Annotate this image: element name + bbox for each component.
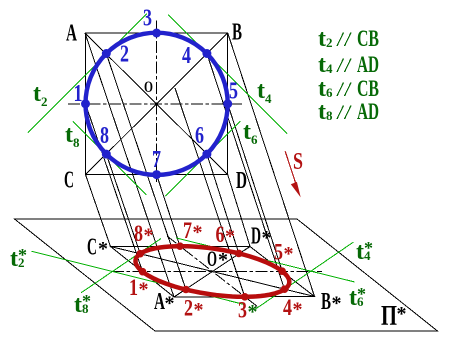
svg-text:D: D (251, 224, 261, 250)
svg-text:t: t (318, 99, 326, 125)
point 5 on circle (223, 99, 232, 108)
svg-text:2: 2 (41, 94, 48, 109)
svg-text:4: 4 (326, 61, 333, 76)
svg-text:AD: AD (357, 99, 379, 124)
svg-text:*: * (248, 301, 258, 323)
svg-text:4: 4 (283, 295, 292, 320)
diagonal B-C (86, 33, 228, 175)
svg-text:6: 6 (326, 85, 333, 100)
diagonal C*-B* (111, 247, 315, 297)
square ABCD (86, 33, 228, 175)
tangent t4* (256, 242, 354, 309)
svg-text:6: 6 (357, 294, 364, 309)
projection ray 6 to 6* (207, 154, 239, 253)
point 3* on ellipse (241, 293, 249, 301)
projection ray 8 to 8* (106, 154, 140, 254)
svg-text:CB: CB (357, 76, 379, 101)
svg-text:3: 3 (238, 298, 247, 323)
svg-text:1: 1 (129, 275, 138, 300)
svg-text:t: t (318, 52, 326, 78)
point 2* on ellipse (182, 286, 190, 294)
svg-text:t: t (318, 26, 326, 52)
svg-text:t: t (243, 119, 251, 145)
svg-text:*: * (397, 303, 407, 325)
point 4 on circle (202, 49, 211, 58)
point 1* on ellipse (139, 268, 147, 276)
plane pi-star outline (15, 219, 438, 331)
svg-text:AD: AD (357, 52, 379, 77)
svg-text:7: 7 (152, 147, 161, 173)
centerline vertical through O (156, 21, 158, 185)
svg-text:8: 8 (82, 301, 89, 316)
svg-text:A: A (66, 21, 77, 47)
svg-text:8: 8 (134, 221, 143, 246)
svg-text:t: t (257, 78, 265, 104)
point 8 on circle (102, 150, 111, 159)
svg-text:*: * (332, 293, 342, 315)
svg-text:5: 5 (229, 79, 238, 105)
centerline oblique through O* (7*-3*) (167, 236, 258, 307)
svg-text:C: C (64, 168, 74, 194)
tangent t6* (176, 238, 354, 282)
svg-text:6: 6 (195, 123, 204, 149)
svg-text:4: 4 (182, 43, 191, 69)
tangent t2 (28, 14, 147, 133)
point 2 on circle (102, 49, 111, 58)
centerline horizontal through O (68, 103, 242, 105)
svg-text:*: * (98, 238, 108, 260)
svg-text:7: 7 (183, 218, 192, 243)
svg-text:Π: Π (381, 301, 397, 332)
point 6* on ellipse (235, 250, 243, 258)
diagonal A-D (85, 33, 228, 175)
svg-text:O: O (207, 246, 217, 271)
svg-text:B: B (232, 20, 242, 46)
circle (blue) inscribed in square (86, 33, 228, 175)
svg-text:8: 8 (73, 135, 80, 150)
projected square A*B*C*D* (111, 247, 315, 298)
svg-text:t: t (74, 292, 82, 318)
svg-text:2: 2 (184, 296, 193, 321)
svg-text:t: t (10, 246, 18, 272)
svg-text:8: 8 (326, 108, 333, 123)
point 7 on circle (152, 170, 161, 179)
svg-text:2: 2 (326, 35, 333, 50)
svg-text:8: 8 (100, 123, 109, 149)
svg-text:S: S (293, 149, 303, 175)
svg-text:6: 6 (251, 132, 258, 147)
svg-text:*: * (165, 293, 175, 315)
svg-text:6: 6 (216, 222, 225, 247)
svg-text:3: 3 (143, 6, 152, 32)
projection ray 7 to 7* (157, 175, 180, 247)
svg-text:*: * (284, 243, 294, 265)
point 4* on ellipse (281, 285, 289, 293)
tangent t8* (81, 239, 161, 293)
svg-text:t: t (65, 122, 73, 148)
svg-text:*: * (293, 299, 303, 321)
svg-text:t: t (349, 285, 357, 311)
projection ray C to C* (86, 175, 111, 247)
svg-text:4: 4 (364, 248, 371, 263)
point 5* on ellipse (278, 267, 286, 275)
svg-text:t: t (33, 81, 41, 107)
svg-text:1: 1 (74, 81, 83, 107)
tangent t2* (32, 251, 244, 304)
svg-text:2: 2 (120, 42, 129, 68)
point 7* on ellipse (176, 242, 184, 250)
tangent t8 (73, 121, 147, 194)
svg-text:*: * (139, 279, 149, 301)
point 6 on circle (202, 150, 211, 159)
point 3 on circle (152, 29, 161, 38)
svg-text:t: t (356, 239, 364, 265)
svg-text:4: 4 (265, 91, 272, 106)
projection ray 2 to 2* (106, 54, 186, 290)
tangent t4 (168, 15, 287, 134)
point 8* on ellipse (136, 250, 144, 258)
svg-text:2: 2 (18, 255, 25, 270)
svg-text:*: * (262, 227, 272, 249)
svg-text:C: C (87, 235, 97, 261)
projection ray 1 to 1* (86, 104, 143, 272)
svg-text:O: O (144, 79, 153, 96)
svg-text:CB: CB (357, 26, 379, 51)
point 1 on circle (81, 99, 90, 108)
projection ray D to D* (228, 175, 250, 247)
svg-text:D: D (236, 168, 247, 194)
svg-text:*: * (218, 249, 228, 271)
tangent t6 (165, 121, 240, 196)
projection ray 3 to 3* (175, 88, 245, 297)
svg-text:*: * (144, 225, 154, 247)
svg-text:*: * (225, 226, 235, 248)
projection ray A to A* (85, 33, 174, 297)
centerline horizontal through O* (112, 271, 322, 273)
projection ray B to B* (228, 33, 315, 297)
svg-text:*: * (194, 299, 204, 321)
projection ray 4 to 4* (207, 54, 285, 290)
projection direction arrow S (285, 151, 296, 183)
svg-text:*: * (193, 222, 203, 244)
diagonal D*-A* (174, 247, 250, 298)
projection ray 5 to 5* (228, 104, 283, 271)
svg-text:5: 5 (274, 240, 283, 265)
svg-text:B: B (321, 289, 331, 315)
ellipse (projection of circle) (136, 246, 290, 297)
